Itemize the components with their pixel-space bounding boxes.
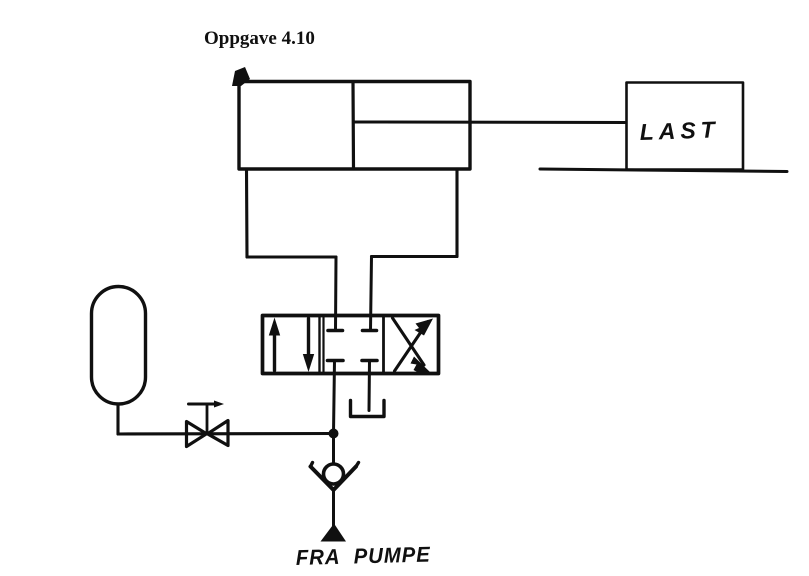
wire supply horizontal — [118, 432, 334, 436]
valve U1 body — [263, 316, 439, 374]
junction node dot — [329, 429, 339, 439]
valve right box cross line B — [393, 318, 425, 365]
shutoff valve V1 right triangle — [208, 421, 229, 446]
svg-text:Oppgave 4.10: Oppgave 4.10 — [204, 28, 315, 49]
wire pipe B to valve — [371, 257, 372, 331]
wire funnel right vertical — [455, 169, 458, 257]
wire valve to junction — [334, 361, 335, 434]
wire funnel left vertical — [245, 169, 249, 257]
wire funnel bottom right — [372, 255, 458, 258]
valve left box down arrow — [307, 319, 310, 357]
wire accumulator stem — [116, 405, 119, 435]
svg-text:LAST: LAST — [639, 116, 720, 145]
ground line under load — [540, 169, 787, 172]
wire funnel bottom left — [247, 255, 336, 258]
valve middle bottom-right blocked port — [362, 359, 377, 363]
check valve seat — [311, 467, 357, 491]
cylinder piston — [351, 82, 355, 169]
valve divider 1b — [322, 316, 324, 373]
cylinder body — [239, 82, 470, 170]
wire check valve to pump — [332, 490, 335, 527]
tank symbol — [351, 401, 385, 417]
wire pipe A to valve — [334, 257, 338, 330]
accumulator — [92, 287, 146, 405]
check valve circle — [324, 464, 344, 484]
cylinder rod — [354, 121, 627, 125]
wire valve to tank — [368, 361, 372, 411]
arrow blob at cylinder top-left — [232, 67, 250, 86]
valve divider 1 — [318, 316, 320, 373]
load box LAST — [627, 83, 744, 170]
svg-text:FRA PUMPE: FRA PUMPE — [296, 542, 432, 570]
valve middle top-left blocked port — [328, 329, 343, 333]
valve middle bottom-left blocked port — [328, 359, 344, 363]
shutoff valve V1 left triangle — [187, 422, 207, 447]
shutoff valve handle stem — [206, 405, 209, 434]
valve left box up arrow — [273, 331, 276, 371]
shutoff valve handle bar — [189, 403, 219, 406]
valve middle top-right blocked port — [363, 329, 377, 333]
wire junction to check valve — [332, 434, 335, 465]
valve divider 2 — [382, 316, 385, 373]
pump source triangle — [321, 524, 347, 542]
valve right box cross line A — [395, 322, 429, 372]
